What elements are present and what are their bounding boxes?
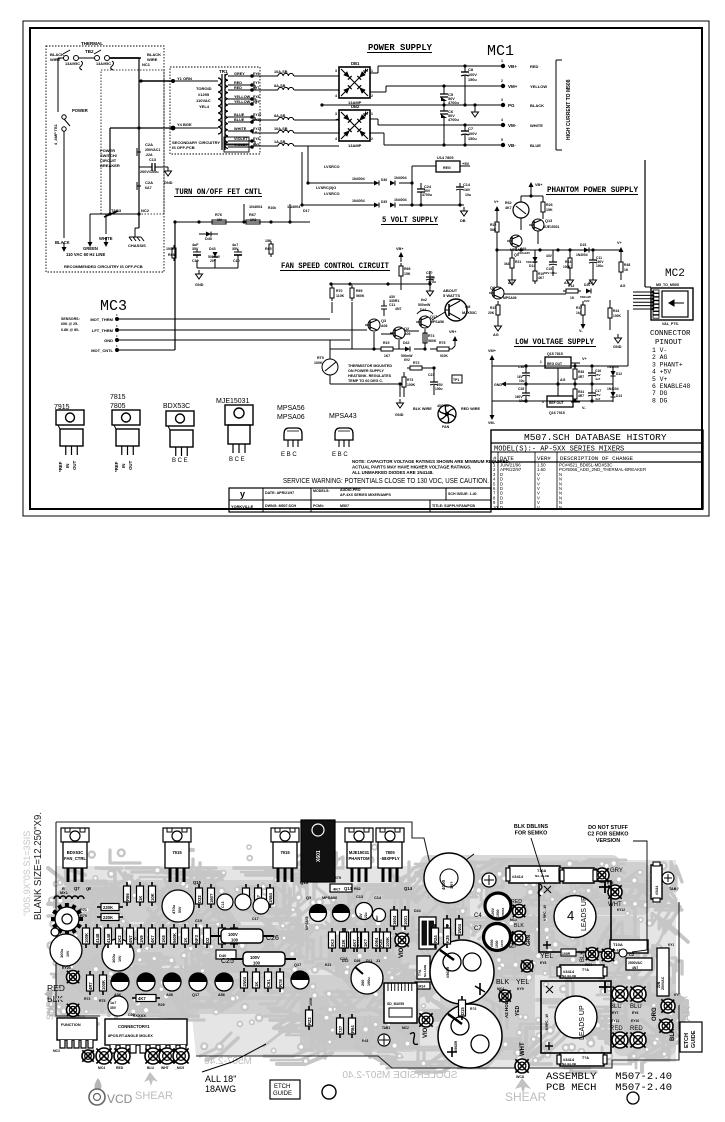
fan top wires bbox=[401, 255, 432, 290]
svg-text:GRN: GRN bbox=[526, 935, 532, 947]
svg-text:4K7: 4K7 bbox=[138, 996, 146, 1001]
svg-text:R13: R13 bbox=[565, 260, 571, 264]
svg-text:RED: RED bbox=[630, 1026, 643, 1032]
svg-text:GREEN: GREEN bbox=[83, 246, 98, 251]
svg-text:100K: 100K bbox=[407, 383, 416, 387]
svg-text:100V: 100V bbox=[468, 73, 477, 77]
wire VB- rail bbox=[442, 143, 466, 146]
svg-text:100u: 100u bbox=[367, 977, 371, 986]
svg-text:100K: 100K bbox=[314, 361, 323, 365]
svg-text:Q17: Q17 bbox=[192, 993, 199, 997]
svg-text:VB+: VB+ bbox=[535, 183, 543, 187]
svg-text:MC2: MC2 bbox=[665, 268, 685, 280]
5V gnd DB bbox=[460, 207, 468, 223]
svg-text:HIGH CURRENT TO M508: HIGH CURRENT TO M508 bbox=[566, 79, 572, 140]
svg-text:100K: 100K bbox=[309, 997, 313, 1006]
svg-text:13AMP: 13AMP bbox=[348, 143, 362, 148]
lv right connects bbox=[613, 310, 628, 366]
5V supply wires bbox=[340, 166, 470, 207]
svg-text:7915: 7915 bbox=[280, 850, 290, 855]
pcb transistor caps row bbox=[217, 894, 269, 921]
svg-text:SENSORS:: SENSORS: bbox=[61, 317, 80, 321]
svg-text:C13: C13 bbox=[221, 902, 225, 908]
lv wires bbox=[492, 357, 588, 410]
svg-text:910K: 910K bbox=[440, 354, 449, 358]
svg-text:4700u: 4700u bbox=[448, 101, 459, 105]
svg-text:10u: 10u bbox=[519, 379, 525, 383]
resistor R38 4R7 bbox=[573, 363, 584, 384]
svg-text:KY9: KY9 bbox=[517, 987, 524, 991]
pcb pad BLK right bbox=[659, 1019, 676, 1041]
svg-text:A06: A06 bbox=[404, 332, 410, 336]
svg-text:M507.SCH DATABASE HISTORY: M507.SCH DATABASE HISTORY bbox=[524, 432, 667, 443]
svg-text:4N7: 4N7 bbox=[375, 915, 379, 921]
svg-text:200: 200 bbox=[361, 980, 365, 986]
wire to green/white drops bbox=[90, 214, 106, 240]
svg-text:THERMISTOR MOUNTED: THERMISTOR MOUNTED bbox=[348, 364, 392, 368]
pcb label RED BLK bbox=[47, 983, 65, 1004]
label BLACK WIRE left bbox=[50, 52, 64, 62]
svg-text:YELLOW: YELLOW bbox=[530, 84, 547, 89]
cap C35 bbox=[515, 384, 530, 403]
history table frame bbox=[491, 430, 703, 509]
svg-text:TB2: TB2 bbox=[85, 49, 94, 54]
svg-text:SCH ISSUE: 1.40: SCH ISSUE: 1.40 bbox=[448, 492, 477, 496]
svg-text:ETCH: ETCH bbox=[684, 1033, 690, 1048]
label WHITE bbox=[99, 236, 113, 247]
VB+ top of fan bbox=[396, 247, 404, 262]
junction TAB3 NC2 bbox=[90, 208, 150, 217]
SHEAR text bottom left bbox=[135, 1072, 173, 1102]
svg-text:73?: 73? bbox=[338, 1025, 343, 1033]
pcb vertical fusebox 3414 bbox=[651, 862, 662, 902]
pcb pads YEL row bbox=[521, 948, 615, 973]
svg-text:MPSA06: MPSA06 bbox=[503, 296, 517, 300]
label HIGH CURRENT TO M508 bbox=[566, 79, 572, 140]
svg-text:R65: R65 bbox=[265, 247, 272, 251]
svg-text:7815: 7815 bbox=[110, 394, 126, 401]
svg-text:MC1: MC1 bbox=[487, 43, 514, 60]
note capacitor ratings bbox=[352, 459, 510, 475]
svg-text:E B C: E B C bbox=[332, 452, 348, 458]
pcb res pair 1604 bbox=[391, 906, 409, 941]
wire Y4 to left bbox=[110, 126, 173, 214]
svg-text:D36: D36 bbox=[381, 178, 387, 182]
svg-text:CONNECTOR: CONNECTOR bbox=[650, 330, 691, 338]
fuse 8A-SB at y=120 bbox=[252, 114, 339, 120]
label SECONDARY CIRCUITRY IS OFF-PCB bbox=[172, 140, 220, 150]
svg-text:100: 100 bbox=[253, 961, 261, 966]
svg-text:1K: 1K bbox=[138, 896, 143, 901]
svg-text:100u: 100u bbox=[596, 264, 603, 268]
pcb resistors 220K pair bbox=[97, 904, 123, 921]
circle pad near etch bbox=[322, 1085, 336, 1099]
phantom bus bbox=[497, 248, 621, 251]
wire VB+ rail bbox=[370, 64, 503, 73]
svg-text:EY11: EY11 bbox=[611, 1019, 619, 1023]
svg-text:MC3: MC3 bbox=[510, 918, 517, 922]
svg-text:4_AMP TB1: 4_AMP TB1 bbox=[54, 124, 58, 145]
pcb pad EY5 grey bbox=[595, 868, 623, 885]
VM+ arrow lv bbox=[488, 349, 497, 366]
svg-text:MC2: MC2 bbox=[402, 1026, 409, 1030]
svg-text:560K: 560K bbox=[356, 294, 365, 298]
svg-text:#XXXX: #XXXX bbox=[133, 1013, 146, 1018]
svg-text:GND: GND bbox=[164, 181, 173, 185]
svg-text:8A-SB: 8A-SB bbox=[274, 84, 286, 88]
svg-text:6x2: 6x2 bbox=[421, 298, 427, 302]
svg-text:POWER: POWER bbox=[72, 108, 88, 113]
title block texts bbox=[265, 488, 477, 508]
resistor R21 3k3 bbox=[504, 250, 521, 276]
svg-text:#5659: #5659 bbox=[445, 966, 450, 978]
svg-text:D40: D40 bbox=[205, 237, 212, 241]
svg-text:8POS.RT.ANGLE MOLEX: 8POS.RT.ANGLE MOLEX bbox=[108, 1034, 153, 1038]
svg-text:R74: R74 bbox=[428, 334, 434, 338]
svg-text:43V: 43V bbox=[546, 254, 553, 258]
svg-text:YORKVILLE: YORKVILLE bbox=[231, 504, 254, 509]
svg-text:DB1: DB1 bbox=[351, 61, 360, 66]
svg-text:T?A: T?A bbox=[582, 1056, 589, 1060]
pcb pads RED RED bbox=[610, 1019, 646, 1048]
pcb resistor row mid bbox=[83, 924, 211, 948]
svg-text:NC2: NC2 bbox=[141, 208, 150, 213]
svg-text:RED: RED bbox=[116, 1066, 124, 1070]
svg-text:16V: 16V bbox=[464, 188, 471, 192]
svg-text:D24: D24 bbox=[414, 909, 421, 913]
wire from breaker to power switch bbox=[58, 58, 63, 112]
svg-text:1: 1 bbox=[371, 69, 373, 73]
svg-text:PC#5066_ADD_2ND_THERMAL-BREAKE: PC#5066_ADD_2ND_THERMAL-BREAKER bbox=[559, 467, 646, 472]
MC3 pins bbox=[90, 313, 119, 353]
svg-text:10K: 10K bbox=[150, 893, 155, 901]
svg-text:1k3: 1k3 bbox=[576, 311, 582, 315]
resistor R66 15K bbox=[399, 263, 411, 284]
label VAL_PTS bbox=[662, 322, 679, 326]
label BLANK SIZE vertical bbox=[32, 812, 44, 920]
svg-text:C61: C61 bbox=[266, 979, 271, 987]
pcb gray arrow left bbox=[44, 989, 61, 999]
svg-text:10A-SB: 10A-SB bbox=[274, 127, 288, 131]
svg-text:B C E: B C E bbox=[172, 458, 188, 464]
wire PG rail bbox=[442, 103, 476, 106]
svg-text:R70: R70 bbox=[336, 289, 342, 293]
diode D13lv 1N4004 bbox=[607, 384, 622, 402]
svg-text:AG: AG bbox=[620, 284, 626, 288]
svg-text:R63: R63 bbox=[362, 1039, 368, 1043]
service warning bbox=[283, 478, 489, 485]
svg-text:MPSA06: MPSA06 bbox=[322, 896, 337, 900]
svg-text:DB: DB bbox=[460, 219, 466, 223]
svg-text:R72: R72 bbox=[84, 997, 90, 1001]
svg-text:C2A: C2A bbox=[145, 180, 153, 185]
fan motor bbox=[437, 404, 456, 429]
svg-text:REG: REG bbox=[443, 166, 451, 170]
svg-text:2500VAC: 2500VAC bbox=[628, 961, 643, 965]
svg-text:LVSRCO: LVSRCO bbox=[324, 165, 340, 169]
svg-text:X601: X601 bbox=[316, 850, 322, 862]
svg-text:EY7: EY7 bbox=[253, 86, 260, 90]
svg-text:Q8: Q8 bbox=[465, 304, 471, 309]
svg-text:VB-: VB- bbox=[508, 143, 516, 148]
svg-text:R29: R29 bbox=[158, 1003, 165, 1007]
svg-text:YELLOW: YELLOW bbox=[234, 100, 251, 104]
svg-text:18AWG: 18AWG bbox=[205, 1084, 236, 1094]
resistor R48 1K bbox=[619, 259, 630, 280]
svg-text:110K: 110K bbox=[336, 294, 345, 298]
svg-text:100u16V: 100u16V bbox=[518, 251, 530, 255]
svg-text:TURN ON/OFF FET CNTL: TURN ON/OFF FET CNTL bbox=[175, 188, 262, 197]
resistor R15 20K bbox=[488, 301, 500, 322]
pcb FUNCTION connector bbox=[53, 1018, 97, 1053]
resistor R73 100K bbox=[402, 374, 416, 390]
svg-text:220K: 220K bbox=[103, 905, 113, 910]
TR1 tap pair jogs bbox=[252, 85, 256, 146]
svg-text:4N7: 4N7 bbox=[632, 966, 638, 970]
pcb TAB label right bbox=[662, 872, 680, 891]
svg-text:6V2: 6V2 bbox=[584, 299, 590, 303]
pcb package Q16 7915 bbox=[271, 828, 309, 885]
svg-text:110 VAC 60 Hz LINE: 110 VAC 60 Hz LINE bbox=[66, 252, 105, 257]
svg-text:EY8: EY8 bbox=[253, 95, 260, 99]
svg-text:7915: 7915 bbox=[172, 850, 182, 855]
pcb res 4064 1N04 D31 bbox=[444, 915, 463, 949]
svg-text:4R7: 4R7 bbox=[578, 394, 584, 398]
svg-text:D20: D20 bbox=[584, 283, 590, 287]
svg-text:VB+: VB+ bbox=[508, 64, 517, 69]
svg-text:.22A: .22A bbox=[145, 153, 153, 157]
svg-text:APR/22/97: APR/22/97 bbox=[500, 467, 522, 472]
svg-text:LVSRC(3)O: LVSRC(3)O bbox=[316, 186, 336, 190]
svg-text:R14: R14 bbox=[568, 284, 574, 288]
wire NC2 chassis bbox=[135, 228, 139, 232]
pcb cap C29 bbox=[108, 996, 135, 1017]
svg-text:2 AG: 2 AG bbox=[652, 354, 668, 361]
svg-text:#500: #500 bbox=[490, 939, 494, 947]
svg-text:4: 4 bbox=[335, 137, 337, 141]
svg-text:PHANTOM: PHANTOM bbox=[348, 856, 370, 861]
svg-text:PCB MECH M507-2.40: PCB MECH M507-2.40 bbox=[546, 1082, 672, 1094]
svg-text:MC?: MC? bbox=[509, 945, 516, 949]
diode D40 bbox=[199, 232, 218, 242]
capacitor C5 4700u 50V bbox=[440, 88, 459, 107]
MC2 connector block bbox=[651, 288, 693, 320]
svg-text:T?A: T?A bbox=[418, 969, 422, 976]
svg-text:1K: 1K bbox=[624, 268, 629, 272]
svg-text:1N4004: 1N4004 bbox=[352, 177, 365, 181]
history table header bbox=[524, 432, 667, 443]
svg-text:R62: R62 bbox=[505, 201, 512, 205]
pcb molex pads row bbox=[96, 1048, 189, 1070]
pcb resistor row upper bbox=[124, 882, 274, 908]
pcb cap C32 100u bbox=[102, 937, 141, 971]
svg-text:1604: 1604 bbox=[392, 915, 397, 925]
svg-text:GND: GND bbox=[104, 338, 113, 343]
AG mid lv bbox=[526, 368, 566, 396]
svg-text:35V: 35V bbox=[192, 247, 199, 251]
title 5 VOLT SUPPLY bbox=[381, 216, 438, 225]
svg-text:100V: 100V bbox=[228, 932, 238, 937]
label RECOMMENDED CIRCUITRY IS OFF-PCB bbox=[64, 264, 143, 269]
svg-text:MPSA43: MPSA43 bbox=[329, 413, 357, 420]
pcb pad WHT bbox=[608, 885, 625, 912]
svg-text:1A-SB: 1A-SB bbox=[274, 140, 286, 144]
svg-text:LEADS UP: LEADS UP bbox=[581, 896, 588, 931]
svg-text:MPSA56: MPSA56 bbox=[430, 320, 444, 324]
svg-text:WHITE: WHITE bbox=[530, 123, 543, 128]
pcb toroid L1 4000 bbox=[424, 853, 474, 903]
pcb diodes D12 D36 D11 bbox=[342, 928, 373, 963]
svg-text:10V: 10V bbox=[66, 950, 70, 957]
svg-text:MPSA56: MPSA56 bbox=[277, 405, 305, 412]
svg-text:4K7: 4K7 bbox=[352, 939, 357, 947]
svg-text:GND: GND bbox=[494, 383, 502, 387]
ETCH GUIDE box bottom bbox=[270, 1080, 300, 1099]
pcb transistor Q17b bbox=[291, 963, 309, 989]
svg-text:SHEAR: SHEAR bbox=[135, 1090, 173, 1102]
svg-text:7805: 7805 bbox=[385, 850, 395, 855]
svg-text:WC?: WC? bbox=[585, 963, 592, 967]
svg-text:FAN_CTRL: FAN_CTRL bbox=[64, 856, 86, 861]
svg-text:2: 2 bbox=[371, 137, 373, 141]
svg-text:D17: D17 bbox=[303, 209, 310, 213]
svg-text:KY1: KY1 bbox=[668, 943, 674, 947]
svg-text:#5663: #5663 bbox=[501, 907, 505, 916]
svg-text:GUIDE: GUIDE bbox=[691, 1030, 697, 1048]
svg-text:RED WIRE: RED WIRE bbox=[461, 407, 480, 411]
svg-text:4 +5V: 4 +5V bbox=[652, 369, 671, 376]
resistor R69 560K bbox=[350, 285, 365, 301]
svg-text:GREY: GREY bbox=[234, 72, 245, 76]
svg-text:1N04: 1N04 bbox=[242, 976, 247, 987]
fan gnd bbox=[395, 399, 404, 417]
resistor R13 100K bbox=[563, 250, 572, 276]
pcb resistor row lower bbox=[241, 968, 284, 992]
svg-text:MC4: MC4 bbox=[98, 1066, 105, 1070]
svg-text:1: 1 bbox=[501, 59, 503, 63]
svg-text:Q7: Q7 bbox=[74, 886, 80, 891]
svg-text:20K: 20K bbox=[488, 311, 495, 315]
svg-text:PCM#:: PCM#: bbox=[313, 504, 324, 508]
svg-text:VM-: VM- bbox=[488, 421, 496, 425]
cap C11p 160V 100u bbox=[589, 250, 604, 276]
svg-text:AUDIO-PRO: AUDIO-PRO bbox=[340, 488, 361, 492]
fuse 8A-SB at y=90 bbox=[252, 84, 339, 90]
svg-text:MC3: MC3 bbox=[100, 298, 127, 315]
power switch S1 bbox=[54, 108, 88, 186]
svg-text:15K: 15K bbox=[546, 208, 553, 212]
svg-text:R72: R72 bbox=[413, 361, 419, 365]
fan lower wires bbox=[330, 340, 455, 397]
svg-text:R66: R66 bbox=[125, 893, 130, 901]
svg-text:K21: K21 bbox=[325, 963, 331, 967]
svg-text:T?A: T?A bbox=[582, 968, 589, 972]
svg-text:MC3: MC3 bbox=[53, 1049, 60, 1053]
svg-text:GRY: GRY bbox=[610, 868, 623, 874]
svg-text:ORG: ORG bbox=[652, 1007, 658, 1021]
svg-text:N: N bbox=[559, 505, 562, 510]
svg-text:BLU: BLU bbox=[147, 1066, 155, 1070]
wire fuse to 5V rows bbox=[296, 146, 340, 207]
svg-text:D32: D32 bbox=[197, 895, 202, 903]
svg-text:#3414: #3414 bbox=[512, 874, 524, 879]
svg-text:1K: 1K bbox=[183, 938, 188, 943]
pcb label BLK vertical bbox=[580, 951, 586, 962]
resistor R12 56K bbox=[490, 216, 499, 238]
wire VM+ rail bbox=[370, 84, 503, 92]
pcb cap C7 bbox=[474, 924, 511, 951]
svg-text:4: 4 bbox=[567, 908, 574, 923]
svg-text:100u: 100u bbox=[111, 953, 116, 963]
dashed box power switch inner bbox=[101, 70, 164, 214]
pcb pad GRN bbox=[512, 931, 532, 946]
svg-text:Q6: Q6 bbox=[490, 286, 495, 290]
svg-text:10V: 10V bbox=[118, 955, 122, 962]
pcb fuse blocks bbox=[506, 866, 607, 1066]
svg-text:1 V-: 1 V- bbox=[652, 347, 667, 354]
svg-text:FAN: FAN bbox=[442, 425, 450, 429]
svg-text:TITLE: SUPPLY/FAN/PCB: TITLE: SUPPLY/FAN/PCB bbox=[432, 504, 475, 508]
svg-text:500mW: 500mW bbox=[418, 303, 431, 307]
wire rail VB- bbox=[370, 133, 503, 145]
svg-text:R48: R48 bbox=[624, 263, 630, 267]
svg-text:y: y bbox=[240, 489, 245, 499]
diode D15 1N4004 bbox=[576, 243, 589, 257]
pcb transformer T1 bbox=[539, 881, 611, 952]
capacitor C7 150u 100V bbox=[461, 125, 477, 145]
svg-text:KY12: KY12 bbox=[617, 908, 625, 912]
svg-text:YELLOW: YELLOW bbox=[234, 95, 251, 99]
pcb transistor row bbox=[111, 973, 233, 997]
svg-text:4N7: 4N7 bbox=[395, 307, 401, 311]
svg-text:3K3: 3K3 bbox=[330, 939, 335, 947]
svg-text:BLUE: BLUE bbox=[234, 118, 245, 122]
wire PG rail long bbox=[320, 103, 501, 106]
svg-text:4K7: 4K7 bbox=[333, 887, 341, 892]
svg-text:100K: 100K bbox=[84, 933, 89, 943]
svg-text:IN: IN bbox=[65, 464, 70, 468]
svg-text:1R?: 1R? bbox=[449, 881, 454, 889]
svg-text:VIOLET: VIOLET bbox=[234, 137, 248, 141]
history table columns header bbox=[493, 455, 634, 462]
svg-text:MOT_CNTL: MOT_CNTL bbox=[91, 348, 113, 353]
transistor Q8 power bbox=[445, 299, 477, 321]
svg-text:TR1: TR1 bbox=[219, 69, 228, 74]
SHEAR text right vertical bbox=[672, 992, 693, 1044]
svg-text:C26: C26 bbox=[266, 935, 279, 942]
svg-text:TAB?: TAB? bbox=[669, 887, 680, 891]
label MC2 bbox=[665, 268, 685, 280]
capacitor C2A 250VAC bbox=[137, 142, 160, 157]
pcb res R22 bbox=[306, 997, 314, 1030]
resistor R72 1K bbox=[407, 361, 425, 370]
resistor R14 1K bbox=[563, 284, 581, 300]
svg-text:ALL 18": ALL 18" bbox=[205, 1074, 236, 1084]
svg-text:1500: 1500 bbox=[495, 940, 499, 948]
title PHANTOM POWER SUPPLY bbox=[546, 186, 638, 195]
thermistor note bbox=[348, 364, 392, 383]
TR1 primary tap Y1 ORN bbox=[139, 76, 218, 83]
pcb package Q15 7915 bbox=[163, 828, 202, 885]
thermistor RT9 bbox=[314, 340, 338, 384]
svg-text:110VAC: 110VAC bbox=[196, 98, 211, 103]
svg-text:4R7: 4R7 bbox=[578, 375, 584, 379]
GND left arrow lv bbox=[494, 382, 528, 388]
package 7915 TO-220 bbox=[54, 404, 84, 472]
package 7815/7805 TO-220 bbox=[110, 394, 140, 472]
fuse 10A-SB at y=76 bbox=[252, 70, 339, 76]
VB+ phantom arrow bbox=[529, 182, 544, 192]
